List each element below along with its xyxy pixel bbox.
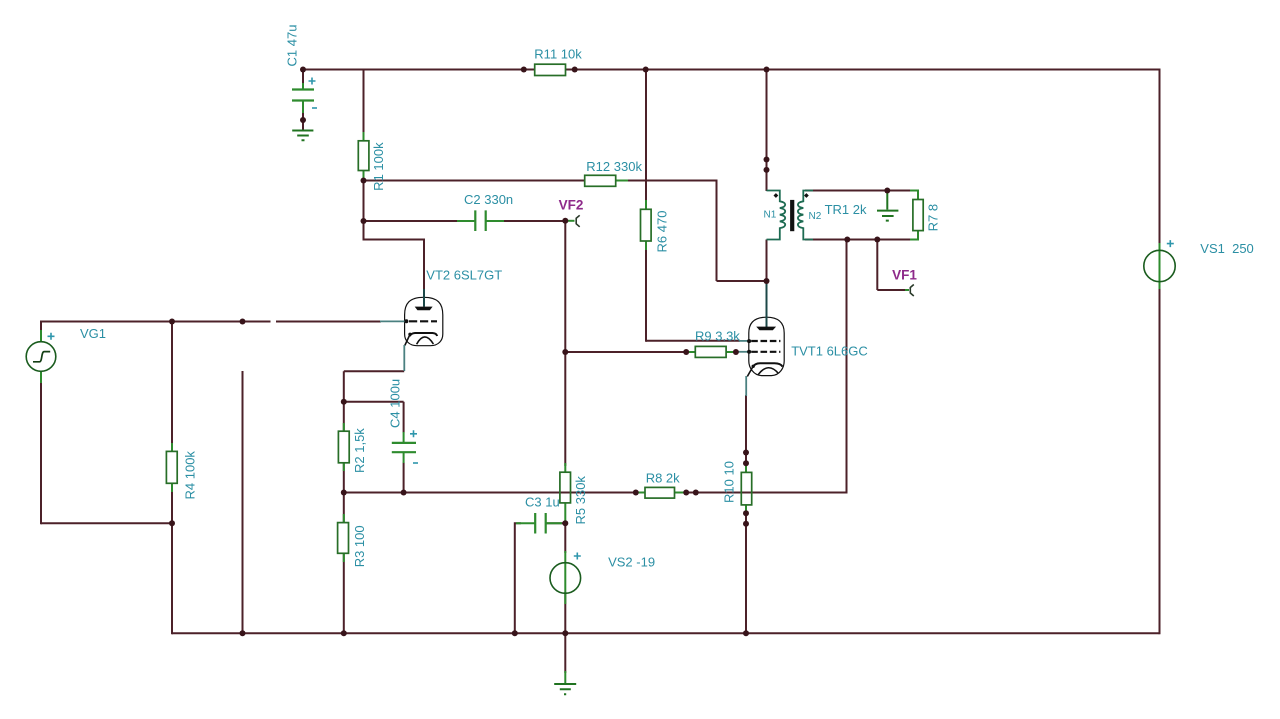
svg-text:R2 1,5k: R2 1,5k xyxy=(352,428,367,473)
svg-text:R6 470: R6 470 xyxy=(655,211,670,253)
svg-text:VF2: VF2 xyxy=(559,197,584,212)
svg-text:VS2 -19: VS2 -19 xyxy=(608,554,655,569)
svg-text:C1 47u: C1 47u xyxy=(285,25,300,67)
svg-text:R8 2k: R8 2k xyxy=(646,470,680,485)
svg-text:VT2 6SL7GT: VT2 6SL7GT xyxy=(426,267,502,282)
svg-text:R12 330k: R12 330k xyxy=(586,159,642,174)
svg-text:R1 100k: R1 100k xyxy=(371,142,386,191)
svg-text:TVT1 6L6GC: TVT1 6L6GC xyxy=(791,344,868,359)
svg-text:R9 3.3k: R9 3.3k xyxy=(695,328,740,343)
svg-text:VS1 250: VS1 250 xyxy=(1200,241,1254,256)
svg-text:C2 330n: C2 330n xyxy=(464,192,513,207)
svg-text:R11 10k: R11 10k xyxy=(534,46,582,61)
svg-text:R3 100: R3 100 xyxy=(352,525,367,567)
svg-text:R5 330k: R5 330k xyxy=(573,476,588,525)
svg-text:TR1 2k: TR1 2k xyxy=(825,202,867,217)
svg-text:R7 8: R7 8 xyxy=(926,204,941,231)
svg-text:VG1: VG1 xyxy=(80,326,106,341)
svg-text:VF1: VF1 xyxy=(892,267,917,282)
svg-text:R10 10: R10 10 xyxy=(722,461,737,503)
svg-text:C3 1u: C3 1u xyxy=(525,495,560,510)
svg-text:N1: N1 xyxy=(764,210,777,221)
svg-text:N2: N2 xyxy=(809,211,822,222)
svg-text:C4 100u: C4 100u xyxy=(388,379,403,428)
svg-text:R4 100k: R4 100k xyxy=(183,451,198,500)
